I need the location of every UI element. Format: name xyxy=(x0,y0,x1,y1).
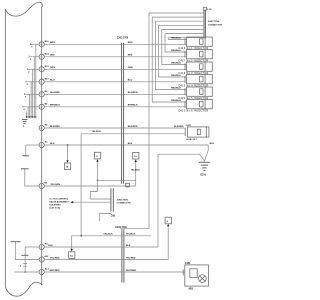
S12 left branch xyxy=(14,271,39,273)
svg-text:RED/BLK: RED/BLK xyxy=(171,100,181,102)
wire W4 YEL/BLK xyxy=(81,235,151,237)
sub injector box xyxy=(185,124,209,141)
junction dot on BLK wire xyxy=(67,144,69,146)
wire W1 BLK to ground xyxy=(44,154,158,247)
wire to ref box A xyxy=(67,145,69,160)
svg-text:BLU: BLU xyxy=(128,80,133,82)
svg-text:BLK/RED: BLK/RED xyxy=(174,126,184,128)
svg-text:17: 17 xyxy=(40,82,42,84)
svg-text:C-18: C-18 xyxy=(207,9,213,11)
feed wire injector 5 xyxy=(155,21,204,89)
svg-text:BLK: BLK xyxy=(48,245,53,247)
page ref box B3 xyxy=(165,217,171,224)
feed wire injector 1 xyxy=(168,38,204,40)
feed wire injector 3 xyxy=(162,29,204,64)
splice S1 xyxy=(39,42,44,47)
shield drain wires top section xyxy=(27,44,36,117)
splice S4 xyxy=(39,79,44,84)
svg-text:14: 14 xyxy=(40,44,42,46)
injector signal wire 5 xyxy=(44,93,186,95)
svg-text:JUNCTION: JUNCTION xyxy=(208,21,220,23)
wire to ref box B1 xyxy=(97,161,99,186)
svg-text:12: 12 xyxy=(40,186,42,188)
svg-text:YEL/BLK: YEL/BLK xyxy=(126,234,136,236)
splice S9 xyxy=(39,183,44,188)
page ref box A xyxy=(64,163,70,170)
svg-text:GRN: GRN xyxy=(128,67,133,69)
svg-text:WHT/RED: WHT/RED xyxy=(126,270,137,272)
svg-text:CONNECTOR: CONNECTOR xyxy=(117,203,131,205)
svg-text:BLK: BLK xyxy=(128,143,133,145)
svg-text:GRN: GRN xyxy=(50,67,55,69)
injector 4 box xyxy=(178,75,212,88)
splice S5 xyxy=(39,92,44,97)
svg-text:YEL/GRN: YEL/GRN xyxy=(50,184,60,186)
sub injector signal wire xyxy=(44,127,184,129)
svg-text:7: 7 xyxy=(40,272,41,274)
splice S8 left branch shield termination xyxy=(26,144,39,146)
injector 1 box xyxy=(178,37,212,50)
svg-text:15: 15 xyxy=(40,57,42,59)
svg-text:C413: C413 xyxy=(186,124,192,127)
injector signal wire 3 xyxy=(44,68,186,70)
harness outline bottom curve xyxy=(5,282,41,296)
svg-text:YEL/RED: YEL/RED xyxy=(50,257,60,259)
connector bar C203 top section xyxy=(121,43,123,184)
svg-text:BLU/RED: BLU/RED xyxy=(128,92,138,94)
feed wire injector 2 xyxy=(165,34,204,52)
svg-text:RED/BLK: RED/BLK xyxy=(171,88,181,90)
svg-text:C60: C60 xyxy=(111,215,116,217)
svg-text:JUNCTION: JUNCTION xyxy=(117,199,129,201)
injector signal wire 2 xyxy=(44,56,186,58)
svg-text:BRN/BLK: BRN/BLK xyxy=(50,105,60,107)
svg-text:CONNECTOR: CONNECTOR xyxy=(208,24,222,26)
svg-text:RED: RED xyxy=(128,55,133,57)
injector signal wire 1 xyxy=(44,43,186,45)
feed wire injector 4 xyxy=(159,25,204,77)
injector signal wire 6 xyxy=(44,106,186,108)
splice S8 ground xyxy=(39,142,44,147)
page ref box B2 xyxy=(133,152,139,159)
harness outline left line xyxy=(4,9,6,287)
splice S2 xyxy=(39,54,44,59)
sub injector return wire xyxy=(81,134,185,236)
shield ground symbol xyxy=(22,120,28,128)
injector 5 box xyxy=(178,87,212,100)
svg-text:BLK: BLK xyxy=(50,143,55,145)
svg-text:RED/BLK: RED/BLK xyxy=(171,50,181,52)
svg-text:YEL/BLK: YEL/BLK xyxy=(103,234,113,236)
shield pickup hooks xyxy=(23,43,39,108)
svg-text:18: 18 xyxy=(40,94,42,96)
harness outline top curve xyxy=(5,2,42,16)
svg-text:G: G xyxy=(23,126,25,128)
arrow into ref box A xyxy=(66,160,68,163)
splice S12 xyxy=(39,269,44,274)
svg-text:BLK/RED: BLK/RED xyxy=(128,126,138,128)
svg-text:C131: C131 xyxy=(185,263,191,265)
svg-text:10: 10 xyxy=(40,145,42,147)
svg-text:YEL/RED: YEL/RED xyxy=(126,257,136,259)
splice pin numbers xyxy=(40,44,42,274)
splice S3 xyxy=(39,67,44,72)
junction dot on S9 wire xyxy=(97,180,99,182)
fuel pump box xyxy=(183,263,208,290)
injector 3 box xyxy=(178,62,212,75)
svg-text:SUB INJ: SUB INJ xyxy=(186,139,197,141)
junction connector bus top right xyxy=(203,10,205,38)
injector 2 box xyxy=(178,50,212,63)
svg-text:19: 19 xyxy=(40,107,42,109)
svg-text:(with TCS): (with TCS) xyxy=(49,206,60,209)
svg-text:8: 8 xyxy=(40,259,41,261)
splice S9 wire to junction connector area xyxy=(44,185,135,187)
feed wire injector 6 xyxy=(152,17,204,102)
svg-text:RED/BLK: RED/BLK xyxy=(171,75,181,77)
splice S11 xyxy=(39,257,44,262)
TCS arrow wire xyxy=(73,201,111,203)
arrow into ref box B2 xyxy=(135,159,137,162)
svg-text:C203 1700: C203 1700 xyxy=(115,227,127,229)
svg-text:BRN/BLK: BRN/BLK xyxy=(128,105,138,107)
S9 left branch with shield cap xyxy=(25,169,39,186)
junction connector stub wire xyxy=(99,214,111,222)
harness main vertical wire xyxy=(41,6,43,285)
S10 left branch with downward cap and crimp marks xyxy=(25,246,39,248)
svg-text:C203 1700: C203 1700 xyxy=(117,38,129,40)
svg-text:YEL/BLK: YEL/BLK xyxy=(92,131,102,133)
feed wire to C203 bottom bar xyxy=(120,13,204,229)
svg-text:BRN: BRN xyxy=(50,42,55,44)
svg-text:BRN: BRN xyxy=(128,42,133,44)
shield drain arrow feet xyxy=(26,116,37,118)
splice S7 sub injector xyxy=(39,125,44,130)
svg-text:YEL/BLK: YEL/BLK xyxy=(131,170,141,172)
connector C-18 symbol xyxy=(203,7,206,10)
svg-text:G101: G101 xyxy=(200,175,206,177)
arrow into ref box B1 xyxy=(96,159,98,162)
svg-text:BLK: BLK xyxy=(126,245,131,247)
branch to ref box B4 xyxy=(72,236,81,249)
svg-text:C421 No.6 INJECTOR: C421 No.6 INJECTOR xyxy=(178,109,208,112)
C203 bottom bar xyxy=(121,229,123,282)
svg-text:SOLENOID: SOLENOID xyxy=(49,204,61,206)
wire from S9 dot to junction connector bar xyxy=(90,186,111,199)
svg-text:BLU/RED: BLU/RED xyxy=(50,92,60,94)
svg-text:RED/BLK: RED/BLK xyxy=(171,38,181,40)
svg-text:RED/BLK: RED/BLK xyxy=(171,63,181,65)
svg-text:BLK: BLK xyxy=(210,143,215,145)
svg-text:M31: M31 xyxy=(189,288,194,290)
splice S6 xyxy=(39,104,44,109)
svg-text:16: 16 xyxy=(40,69,42,71)
small connector box on wire xyxy=(126,183,130,187)
page ref box B4 xyxy=(69,252,75,259)
svg-text:WHT/RED: WHT/RED xyxy=(49,270,60,272)
svg-text:To TCS CONTROL: To TCS CONTROL xyxy=(49,199,69,201)
svg-text:RED: RED xyxy=(50,55,55,57)
svg-text:BLK/RED: BLK/RED xyxy=(50,126,60,128)
injector 6 box xyxy=(178,100,212,113)
svg-text:20: 20 xyxy=(40,128,42,130)
splice S10 xyxy=(39,244,44,249)
wire W3 WHT/RED to pump xyxy=(44,271,184,273)
wire to ref box B2 xyxy=(135,162,137,186)
wire W2 YEL/RED to ref box B3 xyxy=(44,227,168,260)
injector signal wire 4 xyxy=(44,81,186,83)
svg-text:VALVE ASSEMBLY: VALVE ASSEMBLY xyxy=(49,201,69,204)
page ref box B1 xyxy=(94,152,100,159)
svg-text:9: 9 xyxy=(40,247,41,249)
ground G101 xyxy=(158,154,210,176)
junction connector 2 bar xyxy=(110,188,112,212)
ground wire BLK from splice S8 xyxy=(44,145,208,161)
svg-text:BLU: BLU xyxy=(50,80,55,82)
S11 left branch with upward cap xyxy=(11,241,21,243)
